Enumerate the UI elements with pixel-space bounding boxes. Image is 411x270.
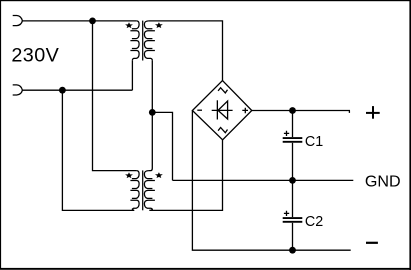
svg-text:GND: GND bbox=[365, 172, 401, 190]
svg-text:C1: C1 bbox=[305, 134, 323, 150]
svg-text:C2: C2 bbox=[305, 214, 323, 230]
svg-text:230V: 230V bbox=[11, 45, 59, 67]
